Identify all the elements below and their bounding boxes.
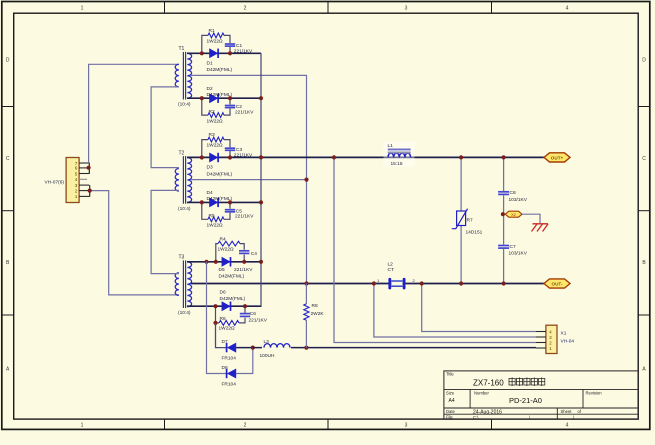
svg-text:(10:4): (10:4) [178, 310, 191, 316]
junction center-tap T2 [304, 178, 308, 182]
junction [200, 51, 204, 55]
svg-text:C8: C8 [510, 190, 516, 196]
svg-text:221/1KV: 221/1KV [234, 267, 253, 273]
junction X2 [501, 212, 505, 216]
svg-text:D6: D6 [220, 290, 226, 296]
svg-text:R8: R8 [312, 303, 318, 309]
svg-text:1W22Ω: 1W22Ω [207, 38, 224, 44]
svg-text:15:15: 15:15 [391, 161, 403, 167]
pin 3 of P1 [79, 184, 89, 186]
svg-text:T1: T1 [179, 46, 185, 52]
junction pin 6 [87, 166, 91, 170]
diode D7 [222, 339, 237, 362]
current transformer L2 CT [388, 262, 406, 290]
wire T1 lower branch [187, 97, 261, 99]
svg-text:C4: C4 [251, 251, 257, 257]
svg-text:C3: C3 [236, 147, 242, 153]
wire T3 lower branch [187, 305, 262, 307]
junction R7 bottom [459, 281, 463, 285]
svg-text:D8: D8 [222, 365, 228, 371]
diode D3 [207, 153, 233, 178]
diode D1 [207, 49, 233, 74]
svg-text:C5: C5 [236, 208, 242, 214]
transformer T3 [175, 255, 191, 317]
wire D7 right lead [236, 347, 253, 349]
svg-text:103/1KV: 103/1KV [509, 197, 528, 203]
capacitor C6 [240, 311, 268, 324]
wire D8 right riser [236, 348, 253, 374]
junction [228, 200, 232, 204]
svg-text:D4: D4 [207, 190, 213, 196]
svg-text:1W22Ω: 1W22Ω [219, 326, 236, 332]
svg-text:R2: R2 [209, 109, 215, 115]
svg-text:D3: D3 [207, 165, 213, 171]
svg-text:1W22Ω: 1W22Ω [207, 118, 224, 124]
svg-text:4: 4 [566, 423, 569, 429]
junction D7/D8 [251, 346, 255, 350]
wire T1 center tap to bus [191, 75, 307, 283]
svg-text:OUT-: OUT- [552, 281, 563, 286]
junction bus main line [259, 155, 263, 159]
junction C7 bottom [502, 281, 506, 285]
pin 2 of X1 [536, 342, 546, 344]
pin 1 of X1 [536, 347, 546, 349]
junction [243, 304, 247, 308]
svg-text:C: C [642, 156, 646, 162]
diode D2 [207, 86, 233, 103]
wire T1 primary to T2 primary [151, 87, 179, 168]
svg-text:14D151: 14D151 [466, 230, 483, 236]
wire R7 stem [460, 157, 462, 211]
svg-text:R1: R1 [209, 28, 215, 34]
svg-text:103/1KV: 103/1KV [509, 250, 528, 256]
svg-text:1W22Ω: 1W22Ω [218, 246, 235, 252]
junction [228, 96, 232, 100]
wire snubber loop T3 bottom [216, 306, 220, 323]
wire C8/C7 stem [503, 157, 505, 191]
junction CT left [372, 281, 376, 285]
pin 7 of P1 [79, 162, 89, 164]
svg-text:Date: Date [446, 409, 456, 414]
svg-text:C: C [6, 156, 10, 162]
varistor R7 [452, 209, 483, 236]
junction pin 2 [88, 189, 92, 193]
junction C8 top [502, 155, 506, 159]
svg-text:D7: D7 [222, 339, 228, 345]
svg-text:(10:4): (10:4) [178, 206, 191, 212]
svg-text:(10:4): (10:4) [178, 102, 191, 108]
svg-text:4: 4 [566, 6, 569, 12]
svg-text:R6: R6 [220, 316, 226, 322]
diode D6 [220, 290, 246, 311]
svg-text:3: 3 [405, 423, 408, 429]
svg-text:Revision: Revision [586, 390, 603, 395]
junction bus D2 [259, 96, 263, 100]
junction [213, 304, 217, 308]
junction D8 riser [204, 260, 208, 264]
svg-text:C2: C2 [236, 104, 242, 110]
wire T2 primary to T3 primary [151, 190, 179, 273]
svg-text:D: D [642, 58, 646, 64]
wire snubber loop [202, 35, 208, 53]
svg-text:D42M(FML): D42M(FML) [219, 273, 245, 279]
svg-text:100UH: 100UH [260, 353, 275, 359]
junction [228, 155, 232, 159]
wire snubber loop [202, 140, 208, 158]
pin 4 of P1 [79, 178, 87, 180]
svg-text:PD-21-A0: PD-21-A0 [509, 396, 542, 405]
svg-text:2: 2 [244, 423, 247, 429]
svg-text:C7: C7 [510, 244, 516, 250]
svg-text:VH-04: VH-04 [561, 339, 575, 345]
junction [214, 260, 218, 264]
svg-text:T2: T2 [179, 150, 185, 156]
resistor R5 [207, 213, 225, 229]
wire main OUT- line [191, 283, 544, 285]
diode D4 [207, 190, 233, 207]
junction [200, 96, 204, 100]
svg-text:D: D [6, 58, 10, 64]
wire CT left to X1 pin3 [374, 284, 536, 338]
junction main/pin2 [332, 155, 336, 159]
wire snubber loop [202, 202, 208, 219]
svg-text:X2: X2 [511, 212, 516, 217]
svg-text:D5: D5 [219, 267, 225, 273]
svg-text:FR104: FR104 [222, 356, 237, 362]
capacitor C8 [498, 190, 528, 203]
svg-text:T3: T3 [179, 255, 185, 261]
wire R8 stem [305, 284, 307, 304]
svg-text:VH-07(6): VH-07(6) [45, 179, 65, 185]
junction R6/D7 branch [213, 321, 217, 325]
resistor R4 [218, 236, 241, 252]
svg-text:1: 1 [81, 6, 84, 12]
junction R8 bottom [304, 346, 308, 350]
wire rectifier cathode bus [260, 53, 262, 306]
pin 5 of P1 [79, 173, 89, 175]
svg-text:CT: CT [388, 267, 394, 273]
svg-text:Size: Size [446, 390, 455, 395]
inductor L3 [260, 339, 292, 359]
wire pins 3-2-1 tie [89, 185, 91, 197]
svg-text:D2: D2 [207, 86, 213, 92]
junction [242, 260, 246, 264]
svg-text:R4: R4 [220, 236, 226, 242]
pin 3 of X1 [536, 336, 546, 338]
svg-text:L2: L2 [388, 262, 394, 268]
capacitor C7 [498, 244, 528, 257]
wire D8 left riser [207, 262, 227, 374]
pin 4 of X1 [536, 331, 546, 333]
resistor R3 [207, 132, 225, 148]
resistor R2 [207, 109, 225, 125]
resistor R1 [207, 28, 225, 44]
svg-text:2: 2 [244, 6, 247, 12]
capacitor C1 [225, 43, 253, 55]
wire D7 left riser [216, 323, 227, 348]
svg-text:2W2K: 2W2K [311, 311, 325, 317]
transformer T2 [175, 150, 191, 212]
junction CT right [420, 281, 424, 285]
pin 1 of P1 [79, 195, 89, 197]
svg-text:D42M(FML): D42M(FML) [207, 171, 233, 177]
capacitor C2 [225, 104, 254, 115]
svg-text:221/1KV: 221/1KV [234, 49, 253, 55]
resistor R8 [304, 303, 325, 320]
pin 6 of P1 [79, 167, 89, 169]
connector X1 VH-04 [546, 325, 575, 353]
ground [532, 224, 549, 232]
wire snubber loop T3 top [216, 244, 218, 262]
wire L3 line to X1 pin1 [253, 347, 536, 349]
wire CT right to X1 pin4 [422, 284, 536, 332]
svg-text:221/1KV: 221/1KV [234, 153, 253, 159]
junction bus D5 [259, 260, 263, 264]
svg-text:3: 3 [405, 6, 408, 12]
inductor L1 [384, 142, 415, 167]
port OUT- [544, 279, 570, 288]
svg-text:221/1KV: 221/1KV [235, 214, 254, 220]
svg-text:D42M(FML): D42M(FML) [207, 67, 233, 73]
wire T2 lower branch [187, 201, 261, 203]
svg-text:L3: L3 [264, 339, 270, 345]
resistor R6 [219, 316, 240, 332]
wire T1 upper branch [187, 52, 261, 54]
svg-text:X1: X1 [561, 331, 567, 337]
svg-text:D1: D1 [207, 61, 213, 67]
title block [444, 371, 638, 420]
svg-text:C1: C1 [236, 43, 242, 49]
svg-text:ZX7-160: ZX7-160 [473, 379, 504, 388]
wire pin6 to T1 primary [89, 64, 179, 163]
svg-text:Sheet: Sheet [561, 409, 573, 414]
junction [200, 155, 204, 159]
capacitor C4 [234, 251, 257, 273]
svg-text:221/1KV: 221/1KV [235, 109, 254, 115]
svg-text:1: 1 [81, 423, 84, 429]
svg-text:1W22Ω: 1W22Ω [207, 143, 224, 149]
svg-text:Title: Title [446, 371, 454, 376]
wire pin2 to T3 primary [90, 191, 179, 295]
junction bus D4 [259, 200, 263, 204]
svg-text:C6: C6 [250, 311, 256, 317]
port X2 [505, 211, 522, 217]
svg-text:A4: A4 [449, 398, 455, 404]
wire X2 to ground [522, 214, 540, 223]
wire main line to X1 pin2 [334, 157, 536, 342]
svg-text:1W22Ω: 1W22Ω [207, 223, 224, 229]
diode D5 [219, 257, 245, 279]
wire T3 upper branch [187, 261, 261, 263]
junction [228, 51, 232, 55]
port OUT+ [544, 153, 570, 162]
junction [200, 200, 204, 204]
junction center-tap OUT- line [304, 281, 308, 285]
svg-text:R5: R5 [209, 213, 215, 219]
wire T2 center tap [191, 179, 307, 181]
svg-text:C:\: C:\ [473, 415, 479, 420]
wire main OUT+ line [187, 156, 544, 158]
capacitor C3 [225, 147, 253, 159]
wire snubber loop [202, 98, 208, 115]
svg-text:D42M(FML): D42M(FML) [220, 296, 246, 302]
svg-text:Number: Number [474, 390, 489, 395]
svg-text:L1: L1 [388, 143, 394, 149]
svg-text:R7: R7 [467, 218, 473, 224]
capacitor C5 [225, 208, 254, 219]
pin 2 of P1 [79, 190, 89, 192]
svg-text:OUT+: OUT+ [551, 155, 564, 160]
diode D8 [222, 365, 237, 388]
svg-text:File: File [446, 415, 453, 420]
junction R7 top [459, 155, 463, 159]
svg-text:FR104: FR104 [222, 382, 237, 388]
transformer T1 [175, 46, 191, 108]
connector P1 VH-07(6) [45, 158, 80, 203]
wire pins 7-6-5 tie [88, 163, 90, 174]
svg-text:R3: R3 [209, 132, 215, 138]
svg-text:221/1KV: 221/1KV [249, 318, 268, 324]
